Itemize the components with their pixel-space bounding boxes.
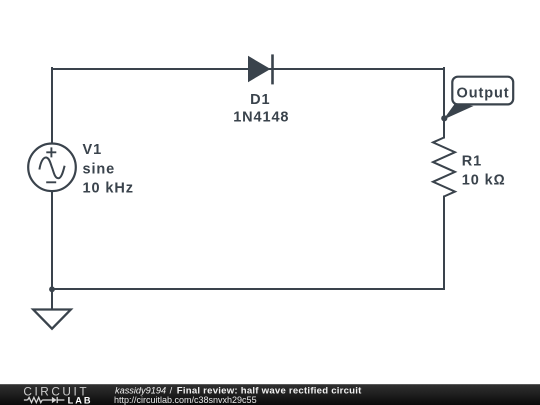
svg-text:10 kHz: 10 kHz [83, 181, 134, 197]
wire top horizontal [52, 68, 444, 70]
footer bar [0, 384, 540, 405]
node dot output [441, 115, 447, 121]
diode D1 [248, 54, 273, 84]
svg-text:D1: D1 [250, 92, 270, 108]
svg-text:R1: R1 [462, 153, 482, 169]
svg-text:10 kΩ: 10 kΩ [462, 173, 506, 189]
wire right lower [443, 197, 445, 290]
svg-text:V1: V1 [83, 142, 103, 158]
svg-text:Output: Output [457, 86, 510, 102]
wire left upper [51, 68, 53, 143]
wire right upper [443, 68, 445, 138]
junction dot ground node [49, 286, 55, 292]
svg-text:LAB: LAB [68, 395, 93, 405]
label R1 value [462, 153, 506, 188]
wire bottom horizontal [52, 288, 444, 290]
wire left lower [51, 192, 53, 310]
label D1 [233, 92, 289, 126]
label V1 value [83, 142, 134, 197]
voltage source V1 [28, 144, 76, 192]
ground [33, 310, 71, 329]
logo squiggle wire resistor diode [24, 397, 65, 403]
resistor R1 [433, 138, 455, 197]
svg-text:http://circuitlab.com/c38snvxh: http://circuitlab.com/c38snvxh29c55 [114, 395, 257, 405]
svg-text:1N4148: 1N4148 [233, 110, 289, 126]
node Output flag [443, 77, 513, 120]
svg-text:sine: sine [83, 162, 116, 178]
